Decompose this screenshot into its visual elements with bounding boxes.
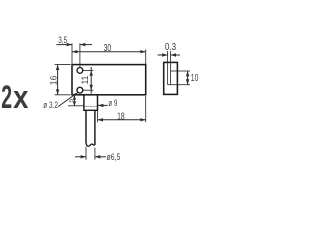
svg-text:0.3: 0.3 [165,42,176,53]
svg-text:2: 2 [1,79,12,115]
svg-text:x: x [13,80,29,116]
dimension 3,5 (hole axis offset) [56,43,92,68]
mounting hole bottom [77,87,83,93]
tiny hub height dimension [68,95,83,105]
leader and label hole dia 3.2 [58,93,78,107]
svg-text:ø 9: ø 9 [108,97,117,108]
shaft [86,111,95,145]
shaft break line [86,142,95,147]
dimension 30 (body width) [72,49,146,64]
leader and label hub dia 9 [98,104,108,107]
svg-text:ø 3.2: ø 3.2 [43,99,58,110]
hub seam line [85,106,98,108]
dimension 0.3 (sheet thickness) [158,51,180,62]
svg-text:3,5: 3,5 [58,34,67,45]
inner edge top [171,70,178,72]
front view body outline [72,65,146,95]
dimension 10 (depth) [177,71,190,85]
svg-text:18: 18 [117,111,125,122]
dimension shaft dia 6,5 [75,147,106,160]
sheet thickness lines [167,62,169,84]
svg-text:11: 11 [79,76,90,85]
dimension 11 (hole spacing) [83,67,93,94]
svg-text:16: 16 [48,76,59,86]
svg-text:30: 30 [104,43,112,54]
svg-text:5: 5 [69,98,74,103]
dimension 16 (body height) [55,65,71,95]
mounting hole top [77,68,83,74]
svg-text:10: 10 [191,73,199,84]
svg-text:ø6,5: ø6,5 [107,151,121,162]
dimension 18 (shaft position) [98,96,146,122]
inner edge bottom [168,84,178,86]
side view outline [164,62,178,94]
bushing hub below body [84,95,98,110]
